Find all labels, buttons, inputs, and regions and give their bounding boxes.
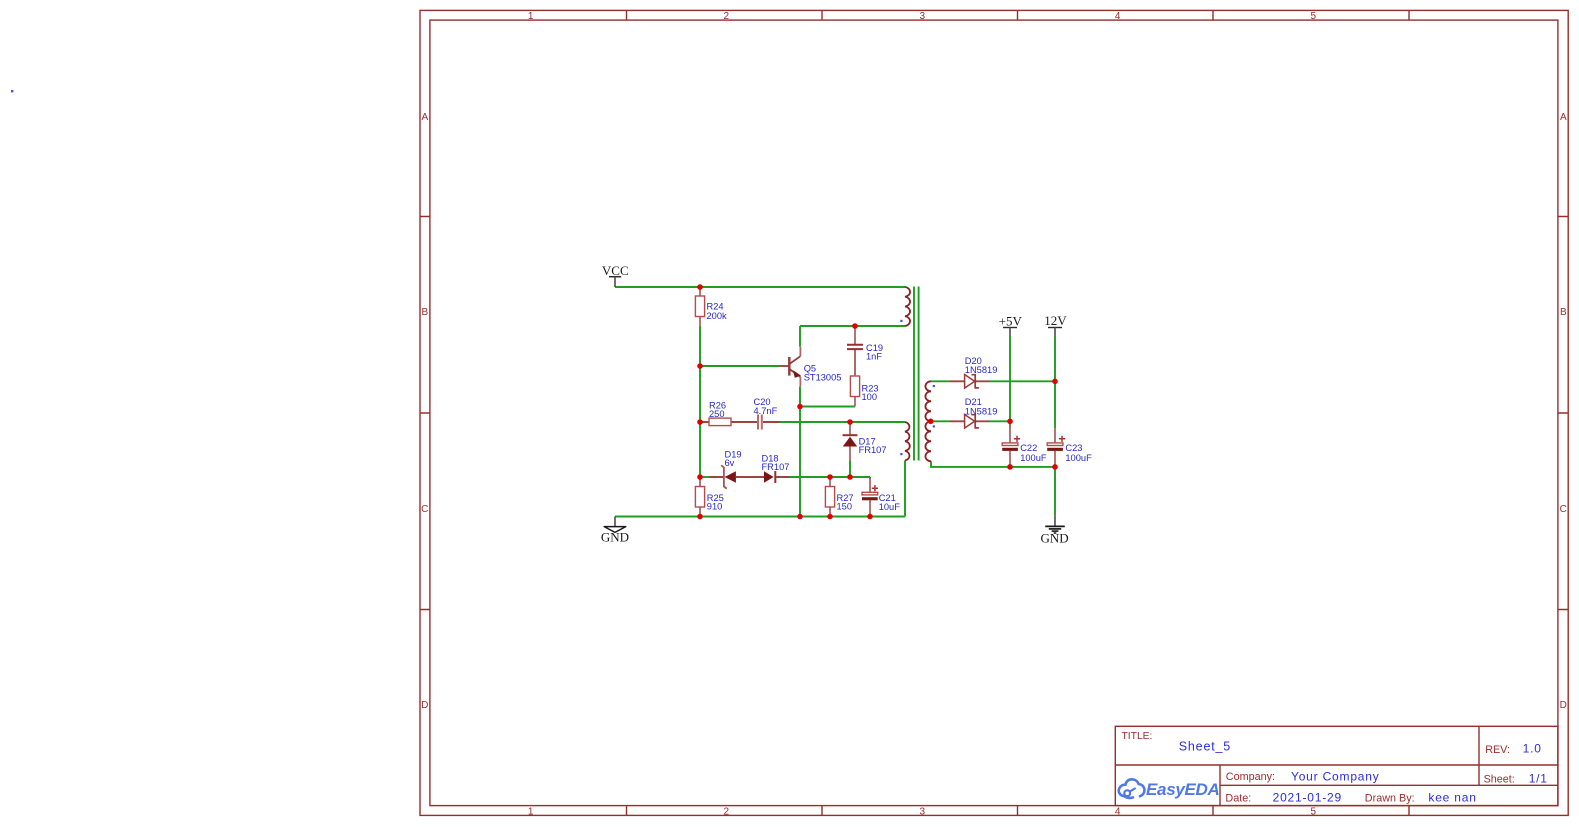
outer border rect bbox=[420, 10, 1568, 815]
electrolytic capacitor C22 bbox=[1002, 421, 1020, 467]
svg-text:kee nan: kee nan bbox=[1428, 791, 1476, 805]
wire collector top row bbox=[800, 325, 905, 327]
svg-text:Sheet:: Sheet: bbox=[1484, 774, 1515, 786]
stray blue pixel mark bbox=[11, 90, 13, 92]
junction node C19 top bbox=[852, 323, 858, 329]
svg-text:6v: 6v bbox=[725, 458, 735, 468]
junction node secondary mid tap bbox=[928, 419, 934, 425]
wire C20 to transformer row bbox=[780, 421, 905, 423]
svg-text:VCC: VCC bbox=[602, 263, 629, 278]
svg-text:12V: 12V bbox=[1044, 313, 1067, 328]
svg-text:A: A bbox=[421, 112, 428, 123]
wire VCC rail bbox=[615, 286, 905, 288]
electrolytic capacitor C23 bbox=[1047, 428, 1065, 467]
inner border rect bbox=[430, 20, 1558, 806]
svg-text:C22: C22 bbox=[1020, 443, 1037, 453]
wire 12V vertical bbox=[1054, 337, 1056, 428]
svg-text:Your Company: Your Company bbox=[1291, 770, 1380, 784]
svg-text:2: 2 bbox=[724, 806, 730, 817]
svg-text:TITLE:: TITLE: bbox=[1122, 731, 1153, 742]
wire collector vertical bbox=[799, 326, 801, 347]
wire base row bbox=[700, 365, 780, 367]
resistor R26 bbox=[700, 418, 740, 426]
junction node R25/ground bbox=[697, 514, 703, 520]
titleblock v-divider REV column bbox=[1478, 726, 1480, 785]
svg-text:4: 4 bbox=[1115, 11, 1121, 22]
wire R23 bottom row bbox=[800, 406, 855, 408]
titleblock h-divider under Company row bbox=[1220, 784, 1558, 786]
wire secondary top to D20 bbox=[931, 380, 950, 382]
capacitor C19 bbox=[847, 326, 863, 376]
resistor R27 bbox=[825, 477, 834, 517]
wire secondary bottom row bbox=[931, 461, 1055, 467]
wire secondary mid to D21 bbox=[931, 420, 950, 422]
transformer T1 primary winding bbox=[905, 287, 910, 326]
left ticks bbox=[420, 217, 430, 610]
schottky diode D21 bbox=[950, 415, 990, 429]
transformer T1 core lines bbox=[914, 287, 919, 461]
junction node rail/D19 row bbox=[697, 474, 703, 480]
net flag +5V bbox=[1003, 328, 1017, 338]
svg-text:REV:: REV: bbox=[1485, 744, 1510, 756]
svg-text:100uF: 100uF bbox=[1065, 453, 1092, 463]
svg-text:Drawn By:: Drawn By: bbox=[1365, 793, 1415, 805]
svg-text:FR107: FR107 bbox=[762, 462, 790, 472]
junction node R27/ground bbox=[827, 514, 833, 520]
wire emitter vertical to ground bbox=[799, 387, 801, 517]
ground flag GND left bbox=[604, 517, 626, 533]
svg-text:B: B bbox=[421, 307, 428, 318]
svg-text:100: 100 bbox=[862, 392, 878, 402]
svg-text:1: 1 bbox=[528, 806, 534, 817]
svg-text:3: 3 bbox=[920, 806, 926, 817]
zener diode D19 bbox=[710, 465, 750, 488]
right ticks bbox=[1558, 217, 1568, 610]
svg-text:1/1: 1/1 bbox=[1529, 772, 1548, 786]
svg-text:5: 5 bbox=[1311, 11, 1317, 22]
junction node D17 bottom bbox=[847, 474, 853, 480]
junction node C23 bottom bbox=[1052, 464, 1058, 470]
svg-text:1N5819: 1N5819 bbox=[965, 365, 998, 375]
net flag VCC bbox=[609, 277, 621, 287]
svg-text:1N5819: 1N5819 bbox=[965, 406, 998, 416]
capacitor C20 bbox=[740, 415, 780, 430]
svg-text:200k: 200k bbox=[707, 311, 728, 321]
svg-text:100uF: 100uF bbox=[1020, 453, 1047, 463]
junction node emitter/R23 row bbox=[797, 404, 803, 410]
row letters left bbox=[421, 112, 428, 711]
net flag 12V bbox=[1048, 328, 1062, 338]
transformer phase dot secondary upper bbox=[933, 385, 935, 387]
svg-text:EasyEDA: EasyEDA bbox=[1146, 780, 1220, 799]
transformer T1 secondary winding upper bbox=[925, 381, 931, 421]
bottom ticks bbox=[627, 806, 1410, 816]
wire 12V to GND bbox=[1054, 467, 1056, 515]
EasyEDA logo cloud bbox=[1119, 779, 1145, 798]
svg-text:3: 3 bbox=[920, 11, 926, 22]
wire ground rail bbox=[615, 516, 905, 518]
svg-text:FR107: FR107 bbox=[859, 445, 887, 455]
electrolytic capacitor C21 bbox=[862, 478, 878, 517]
junction node VCC/R24 bbox=[697, 284, 703, 290]
svg-text:C: C bbox=[1560, 504, 1567, 515]
wire D19 anode stub bbox=[700, 476, 710, 478]
junction node base rail/base wire bbox=[697, 363, 703, 369]
svg-text:D: D bbox=[421, 700, 428, 711]
wire C21 corner bbox=[869, 477, 871, 479]
transistor Q5 bbox=[780, 347, 801, 387]
svg-text:1: 1 bbox=[528, 11, 534, 22]
wire D21 cathode to 5V rail bbox=[990, 420, 1010, 422]
svg-text:ST13005: ST13005 bbox=[804, 372, 842, 382]
wire D18 cathode row bbox=[790, 476, 870, 478]
svg-text:GND: GND bbox=[1041, 531, 1069, 546]
diode D18 bbox=[750, 471, 790, 483]
transformer phase dot primary bbox=[900, 320, 902, 322]
resistor R25 bbox=[695, 477, 704, 517]
svg-text:GND: GND bbox=[601, 529, 629, 544]
EasyEDA logo cloud donut bbox=[1124, 790, 1130, 796]
row letters right bbox=[1560, 112, 1567, 711]
svg-text:2021-01-29: 2021-01-29 bbox=[1273, 791, 1342, 805]
wire +5V vertical bbox=[1009, 337, 1011, 428]
column numbers top bbox=[528, 11, 1317, 22]
svg-text:+5V: +5V bbox=[999, 313, 1023, 328]
svg-text:2: 2 bbox=[724, 11, 730, 22]
svg-text:4.7nF: 4.7nF bbox=[754, 406, 778, 416]
svg-text:Company:: Company: bbox=[1226, 771, 1275, 783]
junction node rail/R26 row bbox=[697, 419, 703, 425]
svg-text:C23: C23 bbox=[1065, 443, 1082, 453]
transformer phase dot feedback bbox=[900, 453, 902, 455]
transformer phase dot secondary lower bbox=[933, 425, 935, 427]
junction node emitter/ground bbox=[797, 514, 803, 520]
CIRCUIT bbox=[601, 263, 1092, 546]
resistor R24 bbox=[695, 287, 704, 326]
TITLEBLOCK bbox=[1115, 726, 1558, 805]
svg-text:R24: R24 bbox=[707, 302, 724, 312]
ground flag GND right bbox=[1045, 515, 1065, 533]
junction node D21/+5V bbox=[1007, 419, 1013, 425]
resistor R23 bbox=[850, 350, 859, 407]
top ticks bbox=[627, 10, 1410, 20]
titleblock h-divider under TITLE row bbox=[1115, 764, 1558, 766]
titleblock v-divider logo/company bbox=[1219, 765, 1221, 806]
wire D17 bottom to row bbox=[849, 461, 851, 478]
diode D17 bbox=[843, 422, 858, 461]
svg-text:250: 250 bbox=[709, 409, 725, 419]
svg-text:Sheet_5: Sheet_5 bbox=[1179, 740, 1231, 754]
junction node D17 top bbox=[847, 419, 853, 425]
svg-text:1.0: 1.0 bbox=[1523, 742, 1542, 756]
junction node R27 top bbox=[827, 474, 833, 480]
svg-text:4: 4 bbox=[1115, 806, 1121, 817]
svg-text:C: C bbox=[421, 504, 428, 515]
svg-text:A: A bbox=[1560, 112, 1567, 123]
column numbers bottom bbox=[528, 806, 1317, 817]
svg-text:150: 150 bbox=[837, 502, 853, 512]
wire D20 cathode to 12V rail bbox=[990, 380, 1055, 382]
svg-text:910: 910 bbox=[707, 502, 723, 512]
wire feedback winding bottom to ground bbox=[904, 461, 906, 517]
titleblock outline bbox=[1115, 726, 1558, 805]
svg-text:B: B bbox=[1560, 307, 1567, 318]
svg-text:D: D bbox=[1560, 700, 1567, 711]
svg-text:10uF: 10uF bbox=[879, 502, 901, 512]
junction node D20/12V bbox=[1052, 379, 1058, 385]
svg-text:5: 5 bbox=[1311, 806, 1317, 817]
wire R24 to base rail bbox=[699, 326, 701, 477]
svg-text:1nF: 1nF bbox=[866, 352, 882, 362]
junction node C22 bottom bbox=[1007, 464, 1013, 470]
transformer T1 feedback winding bbox=[905, 422, 910, 461]
junction node C21/ground bbox=[867, 514, 873, 520]
transformer T1 secondary winding lower bbox=[925, 421, 931, 461]
svg-text:Date:: Date: bbox=[1225, 793, 1251, 805]
schottky diode D20 bbox=[950, 375, 990, 389]
